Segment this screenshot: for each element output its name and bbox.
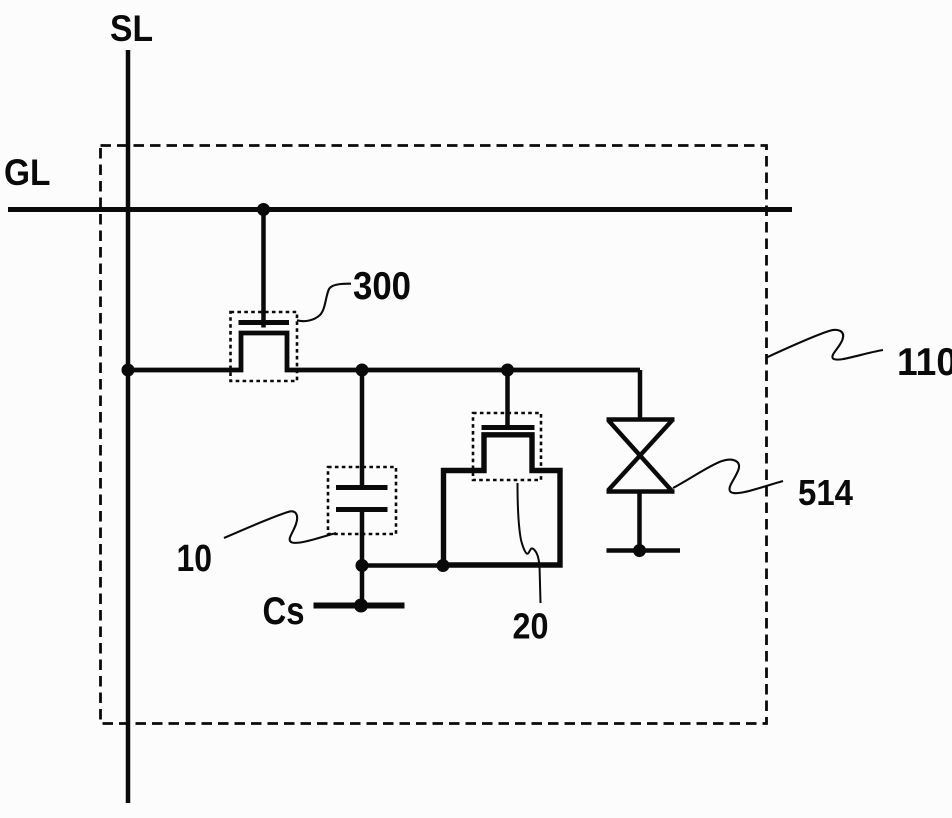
source line SL (vertical) xyxy=(126,50,131,803)
svg-text:300: 300 xyxy=(353,265,411,308)
wire: gate lead of transistor 20 xyxy=(505,370,510,426)
wire: bottom wire from capacitor to transistor 20 xyxy=(362,563,446,568)
svg-text:Cs: Cs xyxy=(263,590,305,633)
leader squiggle for 20 xyxy=(518,483,541,603)
node: row wire to capacitor 10 xyxy=(356,364,369,377)
capacitor 10 dotted box xyxy=(328,467,396,534)
gate line GL (horizontal) xyxy=(8,207,792,212)
svg-text:10: 10 xyxy=(177,538,213,580)
transistor 20 gate bar xyxy=(482,425,535,430)
node: SL to row wire xyxy=(122,364,135,377)
Cs storage bus bar xyxy=(314,603,405,609)
svg-text:514: 514 xyxy=(798,472,853,513)
node: capacitor lead to Cs bar xyxy=(354,599,368,613)
svg-text:110: 110 xyxy=(897,341,952,384)
svg-text:20: 20 xyxy=(513,606,549,647)
leader squiggle for 514 xyxy=(673,460,783,494)
node: bottom wire to transistor 20 source xyxy=(437,559,450,572)
wire: gate lead of transistor 300 xyxy=(261,210,266,328)
pixel boundary dashed box 110 xyxy=(101,146,767,724)
capacitor 10 top plate xyxy=(336,485,388,490)
wire: bottom lead of diode 514 xyxy=(637,491,642,551)
svg-text:GL: GL xyxy=(4,152,51,193)
transistor 20 dotted box xyxy=(473,413,541,480)
wire: capacitor 10 bottom lead xyxy=(360,510,365,605)
leader squiggle for 10 xyxy=(224,511,336,543)
node: diode lead to terminal bar xyxy=(633,544,646,557)
capacitor 10 bottom plate xyxy=(336,507,388,512)
transistor 300 channel and row wire xyxy=(126,333,640,370)
svg-text:SL: SL xyxy=(110,7,153,49)
node: capacitor bottom to bottom wire xyxy=(356,559,369,572)
leader squiggle for 300 xyxy=(297,284,351,322)
transistor 300 dotted box xyxy=(231,312,298,381)
node: GL to gate of 300 xyxy=(257,203,270,216)
wire: top lead of diode 514 xyxy=(638,370,643,421)
diode 514 common terminal bar xyxy=(607,548,681,553)
transistor 300 gate bar xyxy=(239,320,290,325)
node: row wire to gate of 20 xyxy=(501,364,514,377)
wire: capacitor 10 top lead xyxy=(360,370,365,487)
leader squiggle for 110 xyxy=(767,330,884,360)
diode 514 back-to-back triangles xyxy=(607,420,675,492)
transistor 20 body outline xyxy=(444,435,561,565)
